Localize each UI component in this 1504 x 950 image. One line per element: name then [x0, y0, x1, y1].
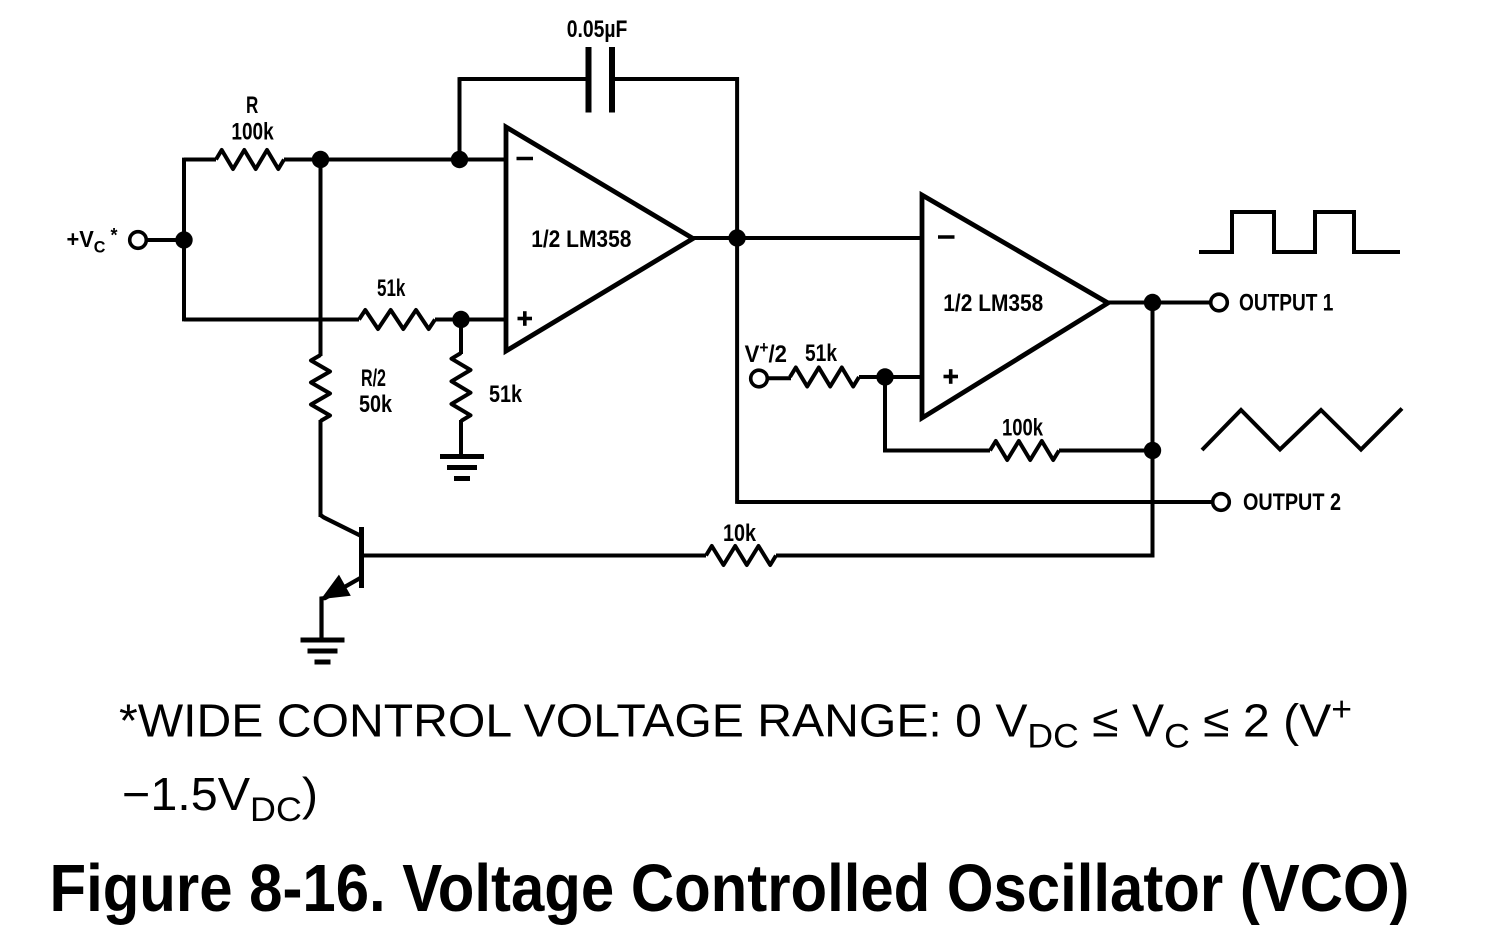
wire - R2 branch vertical (junction to R/2 and transistor collector) [319, 160, 323, 518]
capacitor C1 0.05uF plates [589, 47, 613, 113]
terminal OUTPUT 1 circle [1211, 294, 1228, 311]
waveform icon - triangle wave (OUTPUT 2) [1202, 409, 1402, 451]
resistor R5 value label 51k [805, 340, 838, 367]
wire - feedback top left segment [459, 77, 586, 81]
svg-text:OUTPUT 1: OUTPUT 1 [1239, 290, 1333, 317]
svg-text:51k: 51k [805, 340, 838, 367]
caption - Figure 8-16. Voltage Controlled Oscillator (VCO) [50, 851, 1410, 926]
resistor R4 value label 51k [489, 381, 523, 408]
op-amp U2 minus sign [938, 235, 955, 239]
svg-text:0.05µF: 0.05µF [567, 16, 628, 43]
svg-text:100k: 100k [1002, 415, 1044, 442]
label OUTPUT 2 [1243, 489, 1341, 516]
wire - feedback branch down from plus node [883, 377, 990, 452]
node - junction of R3 / R4 on plus rail [452, 311, 469, 328]
node - U1 output junction [728, 229, 745, 246]
op-amp U1 label 1/2 LM358 [531, 226, 631, 253]
svg-text:+VC *: +VC * [67, 226, 119, 257]
note - wide control voltage range condition [119, 691, 1352, 830]
wire - Q1 base to R7 [363, 554, 706, 558]
svg-text:Figure 8-16. Voltage Controlle: Figure 8-16. Voltage Controlled Oscillat… [50, 851, 1410, 926]
resistor R3 value label 51k [377, 275, 406, 302]
ground - below resistor R4 [440, 457, 484, 479]
resistor R2 value label 50k [359, 391, 393, 418]
transistor Q1 base bar [359, 527, 364, 588]
svg-text:51k: 51k [377, 275, 406, 302]
capacitor C1 value label 0.05uF [567, 16, 628, 43]
wire - R6 to output rail [1059, 449, 1153, 453]
svg-text:51k: 51k [489, 381, 523, 408]
resistor R6 value label 100k [1002, 415, 1044, 442]
resistor R7 10k zigzag [706, 546, 776, 565]
svg-text:10k: 10k [723, 520, 757, 547]
resistor R7 value label 10k [723, 520, 757, 547]
node - U2 output junction [1144, 294, 1161, 311]
node - junction of R1 / R2 branch on minus rail [312, 151, 329, 168]
resistor R2 R/2 50k vertical zigzag [311, 355, 330, 421]
wire - U1 output to U2 inverting input [737, 236, 922, 240]
op-amp U2 1/2 LM358 triangle [922, 195, 1108, 418]
resistor R2 name label R/2 [361, 365, 386, 392]
wire - +Vc terminal to rail [147, 238, 185, 242]
svg-text:1/2 LM358: 1/2 LM358 [531, 226, 631, 253]
wire - left input rail vertical [182, 158, 186, 322]
resistor R4 51k vertical zigzag [452, 353, 471, 421]
wire - U1 output to vertical rail [693, 236, 739, 240]
resistor R3 51k zigzag (U1 plus input) [359, 310, 435, 329]
svg-text:V+/2: V+/2 [745, 338, 787, 368]
wire - R5 to U2 plus input [859, 375, 922, 379]
wire - feedback left drop to inverting input [458, 77, 462, 159]
node - junction of feedback cap on minus rail [451, 151, 468, 168]
svg-text:100k: 100k [231, 119, 274, 146]
terminal V+/2 input circle [751, 370, 768, 387]
wire - V+/2 terminal to R5 [767, 376, 791, 380]
resistor R5 51k zigzag (U2 plus input) [790, 368, 859, 387]
wire - output rail vertical (OUTPUT1 node down to 10k wire) [1151, 303, 1155, 558]
op-amp U1 plus sign [518, 311, 533, 326]
wire - R7 to output rail corner [776, 554, 1154, 558]
resistor R1 value label 100k [231, 119, 274, 146]
label V+/2 [745, 338, 787, 368]
resistor R1 R/100k zigzag [216, 150, 284, 169]
terminal OUTPUT 2 circle [1213, 494, 1230, 511]
wire - U2 output to OUTPUT 1 terminal [1108, 301, 1211, 305]
transistor Q1 emitter lead [322, 578, 361, 639]
wire - inverting input rail (Vc node to op-amp U1 minus) [184, 158, 506, 162]
wire - U1 output rail down to OUTPUT 2 wire [735, 238, 739, 504]
transistor Q1 emitter arrow (PNP) [322, 576, 350, 599]
ground - below transistor Q1 emitter [301, 640, 345, 662]
svg-text:R/2: R/2 [361, 365, 386, 392]
wire - noninverting rail (left rail to op-amp U1 plus) [184, 318, 506, 322]
wire - feedback top right segment [615, 77, 740, 238]
op-amp U1 1/2 LM358 triangle [506, 127, 693, 351]
node - junction R6 on output rail [1144, 442, 1161, 459]
label OUTPUT 1 [1239, 290, 1333, 317]
wire - OUTPUT 2 line (U1 output rail to terminal) [737, 500, 1213, 504]
svg-text:−1.5VDC): −1.5VDC) [122, 768, 318, 829]
label +Vc* [67, 226, 119, 257]
op-amp U2 label 1/2 LM358 [943, 290, 1043, 317]
svg-text:R: R [246, 92, 258, 119]
svg-text:OUTPUT 2: OUTPUT 2 [1243, 489, 1341, 516]
resistor R6 100k zigzag (U2 feedback) [990, 441, 1059, 460]
op-amp U2 plus sign [944, 369, 959, 384]
transistor Q1 collector lead (from R2) [321, 515, 361, 536]
terminal +Vc input circle [130, 232, 147, 249]
svg-text:50k: 50k [359, 391, 393, 418]
svg-text:*WIDE CONTROL VOLTAGE RANGE: 0: *WIDE CONTROL VOLTAGE RANGE: 0 VDC ≤ VC … [119, 691, 1352, 756]
svg-text:1/2 LM358: 1/2 LM358 [943, 290, 1043, 317]
node - junction R5 / R6 feedback [876, 368, 893, 385]
node - +Vc junction on left rail [175, 231, 192, 248]
waveform icon - square wave (OUTPUT 1) [1199, 212, 1400, 252]
wire - R4 branch vertical (plus rail to ground) [459, 320, 463, 457]
op-amp U1 minus sign [517, 157, 534, 161]
resistor R1 name label R [246, 92, 258, 119]
